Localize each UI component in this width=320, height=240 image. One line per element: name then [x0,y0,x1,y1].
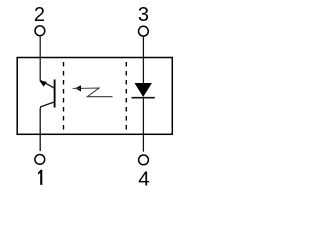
pin 4 terminal circle [139,155,149,165]
component body box U1 [17,58,172,135]
LED D1 cathode bar [132,97,155,99]
transistor Q1 collector lead to pin 1 [40,102,54,151]
dashed divider right [125,62,127,134]
transistor Q1 emitter arrowhead [39,81,47,87]
pin 1 label (custom glyph, no foot) [38,170,42,185]
wire LED cathode to pin 4 [142,99,144,152]
light coupling arrow zigzag shaft [81,88,113,97]
light coupling arrowhead [75,85,81,91]
light coupling arrow tail [73,87,80,89]
dashed divider left [63,62,65,134]
svg-text:4: 4 [138,168,149,190]
transistor Q1 base bar [54,80,56,108]
svg-text:2: 2 [34,4,45,26]
transistor Q1 emitter diagonal lead [40,80,54,88]
pin 2 terminal circle [35,26,45,36]
svg-text:3: 3 [138,4,149,26]
LED D1 triangle [135,83,152,97]
wire pin2 to transistor emitter [39,36,41,80]
pin 1 terminal circle [35,155,45,165]
wire pin3 to LED anode [142,37,144,84]
pin 3 terminal circle [139,26,149,36]
